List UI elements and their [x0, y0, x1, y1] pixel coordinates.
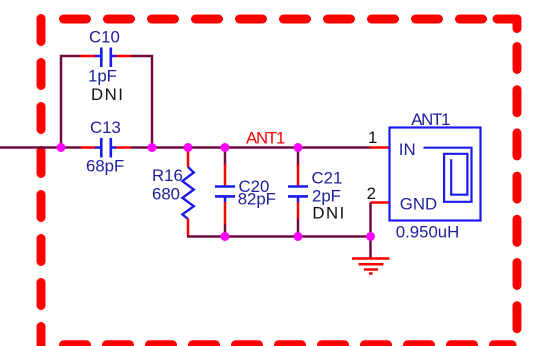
- dashed boundary top: [64, 15, 496, 24]
- svg-text:C13: C13: [90, 118, 121, 137]
- svg-text:1pF: 1pF: [88, 67, 117, 86]
- dashed boundary right: [513, 47, 522, 339]
- pin 2 of U ANT1: [371, 201, 390, 204]
- svg-text:1: 1: [368, 128, 377, 147]
- wire: pin 2 down to bus: [369, 203, 372, 237]
- capacitor C21: [288, 148, 308, 237]
- svg-text:R16: R16: [152, 166, 183, 185]
- dashed boundary left: [37, 19, 46, 346]
- junction dot ground: [366, 232, 375, 241]
- wire: bottom bus from R16 to ground: [187, 235, 372, 238]
- svg-text:ANT1: ANT1: [411, 110, 450, 129]
- resistor R16: [182, 148, 193, 237]
- svg-text:0.950uH: 0.950uH: [396, 223, 459, 242]
- svg-text:C21: C21: [312, 168, 343, 187]
- svg-text:82pF: 82pF: [238, 190, 276, 209]
- antenna component U ANT1 box: [390, 128, 481, 221]
- antenna coil glyph: [424, 148, 472, 202]
- wire: main net from left edge to C13: [0, 146, 81, 149]
- capacitor C20: [215, 148, 235, 237]
- svg-text:C10: C10: [89, 28, 120, 47]
- junction dot C20 top: [221, 143, 230, 152]
- svg-text:GND: GND: [400, 195, 437, 214]
- ground symbol: [352, 259, 390, 274]
- wire: branch up-left to C10: [61, 56, 81, 148]
- dashed boundary top-right corner: [497, 19, 517, 29]
- svg-text:DNI: DNI: [91, 85, 124, 104]
- svg-text:2: 2: [367, 184, 376, 203]
- dashed boundary bottom: [64, 340, 513, 346]
- junction dot C21 bottom: [294, 232, 303, 241]
- svg-text:DNI: DNI: [312, 203, 345, 222]
- svg-text:680: 680: [152, 185, 180, 204]
- svg-text:IN: IN: [399, 140, 416, 159]
- junction dot C20 bottom: [221, 232, 230, 241]
- junction dot R16 top: [184, 143, 193, 152]
- junction dot left of C13: [57, 143, 66, 152]
- wire: C13 right side to ANT1 pin 1: [131, 146, 370, 149]
- pin 1 of U ANT1: [370, 146, 390, 149]
- wire: C10 to branch down-right: [131, 56, 152, 148]
- junction dot right of C13: [148, 143, 157, 152]
- wire: bus junction down to ground: [369, 237, 372, 259]
- capacitor C10: [81, 48, 132, 68]
- junction dot C21 top: [294, 143, 303, 152]
- svg-text:ANT1: ANT1: [246, 129, 285, 148]
- svg-text:68pF: 68pF: [86, 156, 124, 175]
- capacitor C13: [81, 138, 132, 158]
